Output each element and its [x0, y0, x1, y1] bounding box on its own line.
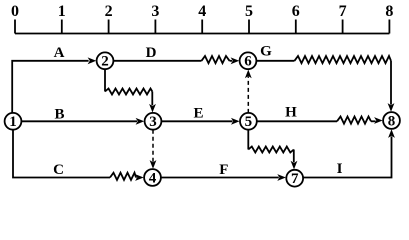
- node 4: [144, 169, 161, 186]
- svg-text:3: 3: [151, 3, 159, 20]
- svg-text:1: 1: [58, 3, 66, 20]
- activity B arrowhead into node 3: [136, 118, 145, 125]
- svg-text:B: B: [54, 106, 64, 122]
- svg-text:C: C: [53, 162, 64, 178]
- activity C arrowhead into node 4: [135, 174, 144, 181]
- arrowhead down into node 3: [149, 104, 156, 113]
- dummy arrowhead up into node 6: [245, 70, 252, 79]
- activity C wire (node 1 down and right): [13, 129, 110, 177]
- node 2: [97, 52, 114, 69]
- svg-text:8: 8: [385, 3, 393, 20]
- activity I arrowhead up into node 8: [388, 129, 395, 138]
- activity G arrowhead down into node 8: [388, 103, 395, 112]
- float zigzag from node 5 down into node 7: [247, 129, 249, 149]
- svg-text:F: F: [219, 162, 228, 178]
- activity A wire (node 1 up and right to node 2): [12, 61, 88, 114]
- dummy activity dashed wire node 5 to node 6: [247, 76, 249, 113]
- activity D arrowhead into node 6: [231, 57, 240, 64]
- svg-text:4: 4: [198, 3, 206, 20]
- svg-text:I: I: [337, 161, 343, 177]
- activity H float zigzag: [337, 117, 371, 124]
- svg-text:D: D: [146, 45, 157, 61]
- activity B wire: [21, 120, 137, 122]
- svg-text:6: 6: [244, 54, 252, 70]
- arrowhead down into node 7: [291, 161, 298, 170]
- node 5: [240, 113, 257, 130]
- activity G float zigzag: [295, 56, 392, 63]
- activity H arrowhead into node 8: [374, 117, 383, 124]
- time scale ruler: [15, 20, 389, 34]
- activity F arrowhead into node 7: [277, 174, 286, 181]
- activity C float zigzag: [110, 173, 136, 180]
- activity D wire: [113, 60, 202, 62]
- activity F wire: [160, 177, 278, 179]
- activity E arrowhead into node 5: [231, 118, 240, 125]
- node 1: [5, 113, 22, 130]
- node 6: [240, 52, 257, 69]
- activity A arrowhead into node 2: [88, 57, 97, 64]
- activity H wire: [256, 120, 337, 122]
- svg-text:8: 8: [388, 113, 396, 129]
- svg-text:2: 2: [101, 54, 109, 70]
- activity D float zigzag: [202, 56, 230, 63]
- activity I wire: [303, 136, 392, 177]
- svg-text:4: 4: [149, 170, 157, 186]
- svg-text:2: 2: [105, 3, 113, 20]
- svg-text:5: 5: [245, 3, 253, 20]
- node 8: [383, 112, 400, 129]
- svg-text:G: G: [260, 44, 272, 60]
- svg-text:3: 3: [149, 114, 157, 130]
- svg-text:H: H: [285, 104, 297, 120]
- node 7: [286, 170, 303, 187]
- svg-text:7: 7: [339, 3, 347, 20]
- svg-text:5: 5: [245, 114, 253, 130]
- activity E wire: [161, 120, 233, 122]
- activity G wire: [256, 60, 295, 62]
- svg-text:7: 7: [291, 171, 299, 187]
- svg-text:0: 0: [11, 3, 19, 20]
- svg-text:1: 1: [9, 114, 17, 130]
- dummy activity dashed wire node 3 to node 4: [152, 130, 154, 162]
- float zigzag from node 2 down into node 3: [104, 69, 106, 92]
- node 3: [145, 113, 162, 130]
- svg-text:6: 6: [292, 3, 300, 20]
- activity G elbow down to node 8: [390, 61, 392, 105]
- svg-text:A: A: [54, 45, 65, 61]
- dummy arrowhead down into node 4: [150, 160, 157, 169]
- svg-text:E: E: [193, 105, 203, 121]
